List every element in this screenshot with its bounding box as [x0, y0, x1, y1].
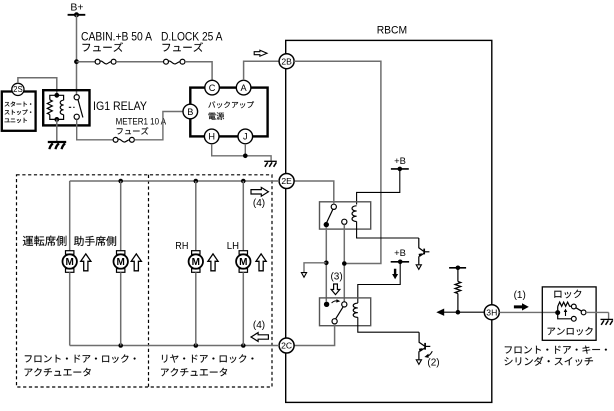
- relay lock (upper) box: [320, 202, 371, 229]
- junction bus bottom M4: [241, 343, 246, 348]
- ground IG1 relay coil: [56, 119, 58, 141]
- ground key cylinder switch: [601, 318, 614, 320]
- wire actuator bus bottom (2C): [70, 345, 279, 347]
- wire connector 2E to lock relay common: [294, 181, 334, 204]
- IG1 relay switch: [74, 95, 79, 100]
- junction H-J ground wire: [243, 154, 248, 159]
- relay unlock (lower) box: [320, 298, 371, 326]
- svg-text:RH: RH: [175, 241, 188, 252]
- wire rear LH door lock actuator motor from top bus: [242, 181, 244, 251]
- resistor pull-up: [457, 268, 459, 282]
- wire lock relay NC contact down to unlock relay: [325, 227, 327, 301]
- wire pin A to connector 2B: [244, 61, 280, 80]
- label rear door lock actuator: [162, 354, 254, 363]
- wire B+ to CABIN fuse: [77, 61, 96, 63]
- arrow (3) down: [331, 284, 340, 295]
- connector 2B: [279, 54, 294, 69]
- key switch unlock branch: [558, 313, 572, 319]
- svg-text:(2): (2): [427, 357, 439, 368]
- IG1 relay coil with parallel resistor: [54, 93, 59, 98]
- key switch lever: [576, 308, 582, 311]
- wire METER1 fuse to backup power pin B: [135, 112, 183, 140]
- wire 2B to unlock relay junction: [294, 61, 381, 263]
- node +B pull-up bar: [449, 267, 466, 269]
- svg-text:2B: 2B: [281, 56, 292, 66]
- off-page arrow down (ground side): [301, 273, 306, 278]
- label front door key cylinder switch: [505, 346, 607, 354]
- wire 2S to IG1 relay coil: [18, 78, 57, 94]
- unit backup power box: [190, 88, 267, 137]
- junction pull-up / sense: [456, 310, 461, 315]
- arrow (4) into 2C: [251, 333, 268, 342]
- wire CABIN fuse to D.LOCK fuse: [116, 61, 163, 63]
- switch front door key cylinder box: [542, 287, 596, 340]
- wire pins H and J to ground: [212, 144, 246, 156]
- wire D.LOCK fuse to backup power pin C: [185, 62, 212, 81]
- arrow up (driver motor): [81, 254, 91, 271]
- label passenger side: [74, 236, 116, 246]
- svg-text:3H: 3H: [486, 307, 497, 317]
- wire key switch to ground: [586, 311, 609, 313]
- motor rear RH door lock actuator motor: [192, 251, 200, 255]
- pin J: [238, 129, 253, 144]
- motor passenger door lock actuator motor: [117, 251, 125, 255]
- connector 2S: [12, 83, 24, 95]
- key switch lock contact: [571, 304, 576, 309]
- enclosure door lock actuators (dashed): [17, 175, 273, 387]
- svg-text:H: H: [208, 132, 215, 142]
- junction bus bottom M3: [194, 343, 199, 348]
- pin A: [236, 80, 251, 95]
- svg-text:(4): (4): [253, 198, 265, 209]
- key switch output contact: [581, 310, 586, 315]
- unlock relay switch: [324, 302, 329, 307]
- svg-text:(3): (3): [330, 271, 342, 282]
- svg-text:2C: 2C: [281, 341, 292, 351]
- key switch unlock contact: [571, 316, 576, 321]
- wire passenger door lock actuator motor from top bus: [120, 181, 122, 251]
- wire passenger door lock actuator motor to bottom bus: [120, 272, 122, 345]
- svg-text:D.LOCK 25 A: D.LOCK 25 A: [161, 30, 223, 44]
- arrow signal down (unlock drive): [392, 269, 398, 279]
- svg-text:M: M: [239, 257, 247, 268]
- curved arrow to (2): [426, 351, 432, 356]
- junction bus top M3: [194, 179, 199, 184]
- svg-text:M: M: [192, 257, 200, 268]
- svg-text:RBCM: RBCM: [377, 25, 407, 37]
- pin B: [183, 104, 198, 119]
- arrow up (passenger motor): [131, 254, 141, 271]
- wire actuator bus top (2E): [70, 180, 279, 182]
- fuse METER1 10 A: [113, 137, 118, 142]
- arrow signal right (key switch): [514, 303, 529, 310]
- svg-text:+B: +B: [394, 155, 406, 166]
- junction NO / 2B feed: [342, 261, 347, 266]
- svg-text:2S: 2S: [13, 85, 23, 94]
- unlock relay coil: [353, 303, 358, 317]
- svg-text:C: C: [209, 83, 216, 93]
- pin H: [204, 129, 219, 144]
- wire rear RH door lock actuator motor to bottom bus: [195, 272, 197, 345]
- lock relay switch: [331, 204, 336, 209]
- svg-text:A: A: [241, 83, 248, 93]
- module RBCM box: [286, 40, 492, 402]
- lock relay coil: [352, 206, 357, 222]
- svg-text:B: B: [187, 107, 193, 117]
- wire unlock relay common to connector 2C: [294, 324, 335, 346]
- wire lock relay NO contact down to unlock relay NO: [343, 224, 345, 301]
- wire driver door lock actuator motor from top bus: [69, 181, 71, 251]
- svg-text:(1): (1): [514, 290, 526, 301]
- label front door lock actuator: [25, 354, 136, 363]
- connector 2E: [279, 174, 294, 189]
- junction bus bottom M2: [118, 343, 123, 348]
- svg-text:LH: LH: [227, 241, 239, 252]
- junction B+ / fuse feed: [74, 59, 79, 64]
- fuse D.LOCK 25 A: [164, 59, 169, 64]
- wire +B to unlock relay coil: [358, 262, 400, 303]
- svg-text:2E: 2E: [281, 176, 292, 186]
- label unlock: [548, 327, 593, 335]
- transistor Q1 lock driver: [419, 238, 424, 251]
- wire driver door lock actuator motor to bottom bus: [69, 272, 71, 345]
- transistor Q2 unlock driver: [419, 332, 424, 346]
- wire +B to lock relay coil: [357, 169, 400, 205]
- svg-text:(4): (4): [253, 320, 265, 331]
- junction NC branch: [324, 261, 329, 266]
- svg-text:B+: B+: [70, 2, 83, 14]
- fuse CABIN.+B 50 A: [95, 59, 100, 64]
- label driver side: [23, 236, 67, 246]
- off-page arrow Q2 emitter: [416, 360, 421, 365]
- label lock: [554, 290, 581, 299]
- arrow up (LH motor): [256, 254, 266, 271]
- wire unlock relay coil to transistor Q2 collector: [358, 317, 419, 332]
- svg-text:METER1 10 A: METER1 10 A: [116, 117, 167, 127]
- svg-text:+B: +B: [394, 247, 406, 258]
- motor rear LH door lock actuator motor: [239, 251, 247, 255]
- key switch return arrow: [565, 310, 567, 316]
- arrow (4) out of 2E: [251, 187, 268, 196]
- wire IG1 relay switch to METER1 fuse: [77, 119, 113, 139]
- relay IG1 box: [43, 90, 89, 125]
- svg-text:M: M: [66, 257, 74, 268]
- unit 2S start-stop unit box: [2, 92, 36, 131]
- wire 3H to key cylinder switch: [499, 311, 556, 313]
- svg-text:J: J: [243, 132, 248, 142]
- wire rear LH door lock actuator motor to bottom bus: [242, 272, 244, 345]
- motor driver door lock actuator motor: [66, 251, 74, 255]
- key switch common contact: [555, 310, 560, 315]
- svg-text:CABIN.+B 50 A: CABIN.+B 50 A: [81, 30, 152, 44]
- arrow signal into 2B: [254, 50, 267, 56]
- connector 2C: [279, 338, 294, 353]
- arrow up (RH motor): [208, 254, 218, 271]
- pin C: [205, 80, 220, 95]
- wire 3H sense line: [442, 311, 485, 313]
- off-page arrow Q1 emitter: [416, 265, 421, 270]
- svg-text:IG1 RELAY: IG1 RELAY: [93, 99, 147, 113]
- wire rear RH door lock actuator motor from top bus: [195, 181, 197, 251]
- wire branch to off-page (ground side): [304, 263, 326, 273]
- wire lock relay coil to transistor Q1 collector: [357, 222, 419, 239]
- arrow signal left (sense input): [436, 309, 444, 316]
- junction bus top M4: [241, 179, 246, 184]
- key switch lock branch (resistor): [557, 307, 559, 313]
- connector 3H: [484, 305, 499, 320]
- junction bus top M2: [118, 179, 123, 184]
- wire B+ vertical down to IG1 relay switch: [76, 15, 78, 95]
- svg-text:M: M: [117, 257, 125, 268]
- ground backup power: [264, 160, 277, 162]
